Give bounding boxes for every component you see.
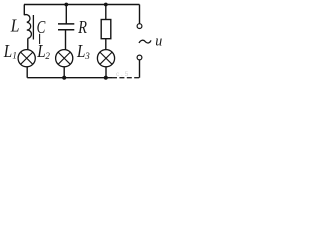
wire lamp3 to bottom <box>105 67 107 78</box>
wire resistor to lamp3 <box>105 39 107 50</box>
svg-text:u: u <box>155 33 162 49</box>
wire coil to lamp1 <box>27 38 29 49</box>
junction dot lamp3 bottom <box>104 76 108 80</box>
terminal upper <box>137 24 142 29</box>
junction dot resistor top <box>104 3 108 7</box>
terminal lower <box>137 55 142 60</box>
capacitor C top plate <box>58 23 74 25</box>
junction dot cap top <box>64 3 68 7</box>
wire cap branch top <box>65 5 67 24</box>
svg-text:c . 5: c . 5 <box>116 71 129 78</box>
wire resistor branch top <box>105 5 107 20</box>
capacitor C bottom plate <box>58 29 74 31</box>
tick below C label <box>39 34 41 44</box>
svg-text:C: C <box>37 17 46 37</box>
wire bottom right faded section <box>112 77 140 79</box>
svg-text:L: L <box>10 16 20 36</box>
svg-text:R: R <box>78 17 87 37</box>
svg-text:1: 1 <box>12 51 17 61</box>
svg-text:3: 3 <box>84 51 90 61</box>
svg-text:L: L <box>3 41 12 61</box>
wire lower terminal to bottom <box>139 60 141 78</box>
wire lamp1 to bottom <box>26 67 28 78</box>
svg-text:2: 2 <box>45 51 50 61</box>
inductor core bar <box>32 15 34 40</box>
svg-text:L: L <box>36 41 45 61</box>
wire left drop to coil <box>23 5 25 16</box>
wire top <box>24 4 140 6</box>
lamp L2 circle <box>56 50 73 67</box>
ac tilde <box>139 40 151 43</box>
lamp L3 cross <box>100 52 112 64</box>
wire right top to terminal <box>139 5 141 24</box>
lamp L3 circle <box>97 50 114 67</box>
wire cap to lamp2 <box>65 30 67 50</box>
lamp L2 cross <box>58 52 70 64</box>
lamp L1 cross <box>21 52 33 64</box>
junction dot lamp2 bottom <box>62 76 66 80</box>
wire lamp2 to bottom <box>63 67 65 78</box>
resistor R box <box>101 20 111 39</box>
wire bottom <box>27 77 112 79</box>
lamp L1 circle <box>18 50 35 67</box>
svg-text:L: L <box>76 41 85 61</box>
inductor L coil <box>24 15 31 39</box>
